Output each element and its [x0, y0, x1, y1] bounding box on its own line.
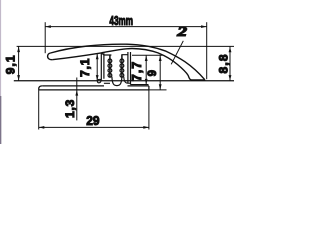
cap top curve — [51, 44, 205, 80]
dimension 9,1 arrows — [17, 47, 20, 81]
svg-text:2: 2 — [176, 24, 188, 39]
dimension 7,1 line — [96, 54, 98, 81]
dimension 9 arrows — [159, 56, 162, 90]
cap bottom curve — [52, 49, 205, 80]
dimension 29 extension right — [148, 90, 150, 130]
dimension 43mm arrows — [45, 25, 206, 28]
svg-text:29: 29 — [86, 114, 99, 129]
svg-text:9,1: 9,1 — [4, 54, 18, 74]
dimension 9 line — [159, 55, 161, 90]
cap left tip — [48, 53, 53, 60]
dimension 7,1 arrows — [96, 54, 99, 81]
base plate left rounded corner — [39, 86, 43, 90]
svg-text:9: 9 — [147, 70, 159, 76]
dimension 43mm extension left — [44, 22, 46, 53]
dimension 29 line — [39, 126, 149, 128]
channel roof extension for dims 7,7 and 9 — [132, 54, 163, 56]
thickness leader line — [171, 41, 183, 65]
dimension 43mm extension right — [206, 22, 208, 79]
dimension 1,3 arrow — [75, 90, 78, 96]
right spline bottom join — [124, 77, 131, 83]
base plate top surface — [42, 85, 149, 87]
dimension 1,3 line — [76, 78, 78, 121]
right wall foot / 7,7 bottom reference — [131, 84, 149, 86]
dimension 29 arrows — [39, 126, 149, 129]
dimension 8,8 arrows — [229, 47, 232, 81]
right channel wall — [128, 52, 131, 85]
left wall bottom join — [104, 82, 110, 84]
base bottom extension for dim 9 — [149, 89, 167, 91]
dimension 29 extension left — [38, 90, 40, 130]
spline slot U bottom — [112, 77, 122, 86]
left wall foot — [97, 79, 101, 83]
floor reference line — [14, 80, 234, 82]
base plate bottom surface — [39, 89, 149, 91]
scan artifact left edge — [0, 0, 1, 144]
svg-text:8,8: 8,8 — [217, 53, 231, 73]
left channel wall — [101, 53, 104, 80]
svg-text:43mm: 43mm — [109, 14, 133, 28]
dimension 7,7 line — [145, 55, 147, 84]
top reference line (9,1 / 8,8 datum) — [17, 45, 234, 47]
base plate right edge — [148, 86, 150, 90]
dimension 43mm line — [45, 26, 207, 28]
dimension 9,1 line — [18, 46, 20, 80]
svg-text:1,3: 1,3 — [63, 99, 77, 118]
left serrated spline — [108, 59, 112, 77]
channel roof under cap — [101, 53, 128, 55]
right serrated spline — [120, 59, 124, 77]
svg-text:7,1: 7,1 — [78, 58, 92, 77]
dimension 8,8 line — [229, 47, 231, 81]
svg-text:7,7: 7,7 — [130, 61, 144, 81]
dimension 7,7 arrows — [145, 56, 148, 85]
